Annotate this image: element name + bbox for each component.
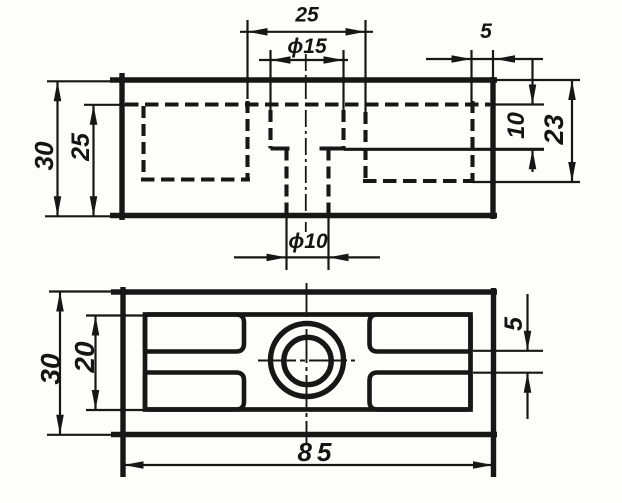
right side extension line at top edge level — [495, 79, 580, 81]
slot bottom-left rounded — [145, 373, 244, 410]
dim 85: right arrowhead — [473, 461, 493, 469]
dim 5 lower-right: lower arrowhead pointing up — [524, 373, 532, 393]
dim 30 lower: bottom extension line — [47, 434, 113, 436]
dim 25 left: top arrowhead — [90, 105, 98, 125]
dim 25 top: left arrowhead — [248, 28, 268, 36]
dim 20: top extension line — [86, 314, 143, 316]
dim 30 upper: top arrowhead — [54, 81, 62, 101]
slot top-right rounded — [370, 315, 471, 352]
dim 25 top: right extension line — [364, 20, 366, 112]
hole D10 circle — [284, 337, 331, 384]
dim 30 upper: bottom arrowhead — [54, 196, 62, 216]
outline bottom edge — [111, 432, 497, 437]
dim 20: top arrowhead — [92, 316, 100, 336]
left pocket hidden right edge — [245, 101, 249, 180]
dim 30 lower: top extension line — [49, 290, 113, 292]
outline bottom edge — [110, 213, 497, 218]
dim 85: left arrowhead — [124, 461, 144, 469]
slot top-left rounded — [145, 315, 244, 352]
svg-text:10: 10 — [503, 112, 530, 139]
svg-text:25: 25 — [67, 132, 95, 162]
right pocket hidden left edge — [363, 112, 367, 181]
dim 5 lower-right: upper arrow line — [526, 294, 528, 351]
outline top edge — [110, 77, 497, 82]
counterbore step hidden line left — [271, 146, 290, 150]
svg-text:20: 20 — [69, 341, 100, 374]
inner cavity rectangle — [145, 315, 471, 410]
dim D10: left arrowhead pointing right — [267, 254, 287, 262]
svg-text:30: 30 — [35, 353, 66, 385]
dim 5 top-right: left arrowhead pointing right — [452, 55, 472, 63]
slot bottom-right rounded — [370, 373, 471, 410]
dim D15: right arrowhead — [324, 56, 344, 64]
outline top edge — [111, 289, 497, 294]
outline left edge — [119, 73, 124, 220]
dim 5 lower-right: upper arrowhead pointing down — [524, 331, 532, 351]
dim 20: bottom extension line — [86, 409, 143, 411]
dim 5 lower-right: bottom extension line — [473, 372, 543, 374]
right side extension line at step level — [344, 148, 544, 151]
hole D10 hidden right edge — [326, 149, 330, 215]
hole D15 circle — [271, 324, 344, 397]
svg-text:25: 25 — [294, 4, 319, 27]
dim D10: right arrowhead pointing left — [329, 254, 349, 262]
dim 5 top-right: left extension (pocket edge up) — [470, 50, 472, 101]
dim 5 top-right: dimension line — [426, 58, 543, 60]
dim 23: dimension line — [571, 80, 573, 182]
outline right edge (extends down as 85 extension) — [491, 288, 496, 477]
dim 25 top: left extension line — [246, 20, 248, 99]
dim 30 lower: top arrowhead — [56, 292, 64, 312]
dim 23: top arrowhead — [568, 80, 576, 100]
right pocket hidden right edge — [470, 101, 474, 181]
dim 10: lower arrow line — [531, 149, 533, 172]
dim 25 top: dimension line — [240, 31, 373, 33]
svg-text:ϕ15: ϕ15 — [287, 35, 327, 58]
dim 30 lower: bottom arrowhead — [56, 415, 64, 435]
dim D10: left extension line below view — [285, 216, 287, 270]
vertical center line upper view — [305, 54, 307, 232]
hole D15 hidden right edge — [341, 110, 345, 149]
dim 30 upper: top extension line — [47, 80, 112, 82]
dim D15: left extension line — [269, 50, 271, 110]
dim D15: dimension line — [259, 59, 348, 61]
dim D10: dimension line — [234, 256, 380, 258]
dim 25 left: bottom arrowhead — [90, 196, 98, 216]
counterbore step hidden line right — [320, 146, 345, 150]
dim 30 upper: dimension line — [56, 81, 58, 216]
svg-text:5: 5 — [500, 316, 528, 331]
vertical center line lower view — [306, 283, 308, 443]
right side extension line at cavity-top level — [490, 103, 544, 105]
dim 85: dimension line — [123, 464, 494, 466]
dim 5 lower-right: top extension line — [473, 350, 543, 352]
dim 10: upper arrowhead pointing down — [529, 85, 537, 105]
outline right edge — [490, 77, 495, 219]
hole D10 hidden left edge — [284, 149, 288, 215]
right side extension line at pocket-bottom level — [472, 181, 580, 183]
hole D15 hidden left edge — [268, 110, 272, 149]
svg-text:5: 5 — [480, 20, 492, 43]
hidden line, cavity top, full width — [125, 102, 490, 106]
right pocket hidden bottom edge — [363, 179, 474, 183]
dim D15: right extension line — [342, 50, 344, 110]
outline left edge (extends down as 85 extension) — [120, 287, 125, 477]
dim 25 top: right arrowhead — [346, 28, 366, 36]
dim 23: bottom arrowhead — [568, 162, 576, 182]
left pocket hidden left edge — [141, 106, 145, 180]
dim 10: upper arrow line — [531, 60, 533, 105]
dim 5 top-right: right extension (view edge up) — [492, 50, 494, 80]
dim D15: left arrowhead — [271, 56, 291, 64]
svg-text:ϕ10: ϕ10 — [288, 230, 328, 253]
dim 10: lower arrowhead pointing up — [529, 149, 537, 169]
dim 25 left: top extension line — [84, 104, 128, 106]
dim D10: right extension line below view — [327, 216, 329, 270]
left pocket hidden bottom edge — [141, 177, 250, 181]
svg-text:23: 23 — [539, 114, 569, 145]
dim 30 upper: bottom extension line — [45, 215, 112, 217]
svg-text:30: 30 — [29, 141, 59, 170]
dim 5 lower-right: lower arrow line — [526, 373, 528, 419]
svg-text:85: 85 — [298, 437, 337, 467]
dim 5 top-right: right arrowhead pointing left — [495, 55, 515, 63]
dim 25 left: dimension line — [92, 105, 94, 217]
horizontal center line through circle — [258, 360, 355, 362]
dim 30 lower: dimension line — [59, 292, 61, 435]
dim 20: dimension line — [94, 316, 96, 411]
dim 20: bottom arrowhead — [92, 390, 100, 410]
